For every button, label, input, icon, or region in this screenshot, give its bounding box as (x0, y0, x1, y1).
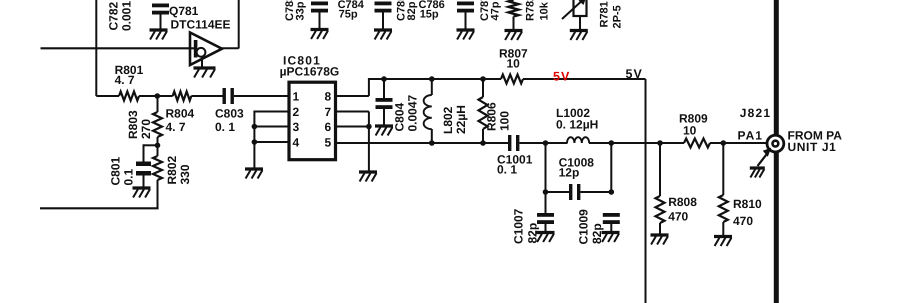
capacitor C782 (152, 4, 169, 8)
svg-text:1: 1 (293, 89, 300, 103)
svg-text:22µH: 22µH (454, 105, 468, 134)
svg-text:DTC114EE: DTC114EE (171, 18, 231, 32)
svg-text:82p: 82p (590, 223, 604, 244)
wire pins 2-4 to ground (253, 111, 255, 170)
capacitor C1008 (546, 191, 570, 193)
svg-text:2P-5: 2P-5 (612, 5, 624, 28)
svg-text:82p: 82p (525, 223, 539, 244)
wire R801 to R804 (139, 95, 173, 97)
wire corner from box to R801 line (96, 95, 119, 97)
wire pin4 (254, 141, 289, 143)
wire pin7 (336, 111, 369, 113)
svg-text:R806: R806 (484, 102, 498, 131)
svg-text:PA1: PA1 (738, 128, 763, 142)
svg-text:R781: R781 (599, 1, 611, 27)
svg-text:7: 7 (325, 105, 332, 119)
svg-text:R782: R782 (525, 0, 537, 21)
svg-text:Q781: Q781 (169, 4, 199, 18)
node pin4 junction (252, 139, 258, 145)
svg-text:R803: R803 (126, 110, 140, 139)
Q781 box left edge (95, 0, 97, 96)
svg-text:4. 7: 4. 7 (115, 73, 135, 87)
svg-text:330: 330 (178, 164, 192, 184)
svg-text:5V: 5V (626, 67, 643, 81)
wire pin5 to signal line (336, 142, 509, 144)
svg-text:100: 100 (497, 111, 511, 131)
capacitor C803 (223, 88, 226, 104)
svg-text:0.0047: 0.0047 (405, 94, 419, 131)
svg-text:4: 4 (293, 135, 300, 149)
ground (IC801 pins 6-7) (359, 170, 377, 173)
ground (R781) (570, 29, 588, 32)
capacitor C804 (381, 76, 387, 82)
inductor L1002 0.12uH (567, 137, 589, 143)
resistor R806 (480, 76, 486, 82)
ground (C1007) (537, 231, 555, 234)
node pin3 junction (252, 124, 258, 130)
svg-text:2: 2 (293, 105, 300, 119)
resistor R782 10k (509, 0, 519, 17)
ground (C801) (133, 186, 151, 189)
resistor R808 (657, 140, 663, 146)
trimmer R781 (574, 0, 587, 16)
op-amp IC801 uPC1678G (289, 82, 336, 160)
ground (IC801 pins 2-4) (245, 167, 263, 170)
svg-text:33p: 33p (295, 1, 307, 20)
svg-text:C804: C804 (392, 102, 406, 131)
svg-text:82p: 82p (406, 1, 418, 20)
svg-text:15p: 15p (420, 9, 439, 21)
svg-text:12p: 12p (559, 166, 580, 180)
svg-text:47p: 47p (490, 1, 502, 20)
node pin6/7 junction (366, 124, 372, 130)
node branch left bottom (543, 189, 549, 195)
resistor R810 (721, 140, 727, 146)
svg-text:75p: 75p (339, 9, 358, 21)
ground (C784) (374, 28, 392, 31)
ground (C1009) (602, 231, 620, 234)
svg-text:4. 7: 4. 7 (166, 120, 186, 134)
wire C803 to IC pin1 (234, 95, 288, 97)
wire C1001 to R809 (519, 142, 567, 144)
wire pins 6-7 to ground (368, 127, 370, 173)
ground (C804) (375, 124, 393, 127)
ground (C782) (150, 28, 168, 31)
capacitor C783 (311, 2, 328, 6)
svg-text:µPC1678G: µPC1678G (280, 65, 340, 79)
ground (C783) (311, 28, 329, 31)
svg-text:R808: R808 (668, 195, 697, 209)
capacitor C1001 (508, 135, 511, 151)
node branch right top (609, 140, 615, 146)
svg-text:R804: R804 (166, 107, 195, 121)
svg-text:10k: 10k (539, 1, 551, 20)
svg-text:10: 10 (683, 124, 697, 138)
svg-text:470: 470 (733, 214, 753, 228)
svg-text:0.001: 0.001 (119, 1, 133, 31)
svg-text:C782: C782 (106, 1, 120, 30)
wire bottom output to left (40, 207, 159, 209)
svg-text:C801: C801 (108, 156, 122, 185)
svg-text:UNIT J1: UNIT J1 (788, 140, 837, 154)
capacitor C1009 (603, 213, 620, 217)
node branch right bottom (609, 189, 615, 195)
border line (page edge) (774, 0, 779, 303)
svg-text:0.1: 0.1 (121, 168, 135, 185)
capacitor C784 (375, 2, 392, 6)
svg-text:5: 5 (325, 135, 332, 149)
capacitor C1007 (545, 192, 547, 213)
svg-text:270: 270 (139, 119, 153, 139)
svg-text:C803: C803 (215, 107, 244, 121)
wire 5V feed down (645, 79, 647, 303)
ground (C786) (457, 28, 475, 31)
svg-text:3: 3 (293, 120, 300, 134)
resistor R801 (119, 92, 139, 101)
node branch left top (543, 140, 549, 146)
capacitor C801 (136, 162, 151, 167)
wire input to Q781 base (41, 47, 195, 49)
svg-text:0. 1: 0. 1 (215, 120, 235, 134)
resistor R803 (157, 96, 159, 112)
ground (R808) (651, 233, 669, 236)
connector arrow (758, 153, 769, 167)
wire branch left (545, 143, 547, 192)
resistor R809 (684, 139, 710, 148)
wire 5V rail (369, 78, 501, 80)
svg-text:10: 10 (507, 57, 521, 71)
svg-text:6: 6 (325, 120, 332, 134)
wire pin8 to rail (336, 95, 369, 97)
inductor L802 22uH (429, 76, 435, 82)
svg-text:C1009: C1009 (576, 209, 590, 245)
resistor R802 (157, 145, 159, 156)
svg-text:470: 470 (668, 210, 688, 224)
ground (Q781 emitter) (194, 66, 216, 69)
svg-text:0. 1: 0. 1 (497, 163, 517, 177)
wire R809 to J821 (710, 142, 767, 144)
svg-text:C1007: C1007 (511, 208, 525, 244)
wire R804 to C803 (191, 95, 222, 97)
svg-text:5V: 5V (553, 70, 570, 84)
svg-text:8: 8 (325, 89, 332, 103)
svg-text:R810: R810 (733, 197, 762, 211)
resistor R807 (501, 75, 523, 84)
node junction R803/C801/R802 (155, 143, 161, 149)
node junction R801/R803/R804 (155, 93, 161, 99)
connector J821 (767, 135, 784, 152)
wire pin6 (336, 126, 369, 128)
ground (connector shell) (750, 166, 765, 169)
svg-text:R802: R802 (165, 155, 179, 184)
svg-text:L802: L802 (441, 106, 455, 134)
wire branch right (610, 143, 612, 192)
resistor R804 (173, 92, 192, 101)
ground (R782) (505, 29, 523, 32)
svg-text:J821: J821 (740, 106, 772, 120)
transistor Q781 DTC114EE symbol (190, 33, 222, 66)
wire pin3 (254, 126, 289, 128)
capacitor C786 (457, 2, 474, 6)
svg-text:0. 12µH: 0. 12µH (556, 118, 598, 132)
Q781 box right edge (238, 0, 240, 49)
wire to C801 (144, 144, 158, 146)
ground (R810) (714, 235, 732, 238)
wire pin2 (254, 111, 289, 113)
